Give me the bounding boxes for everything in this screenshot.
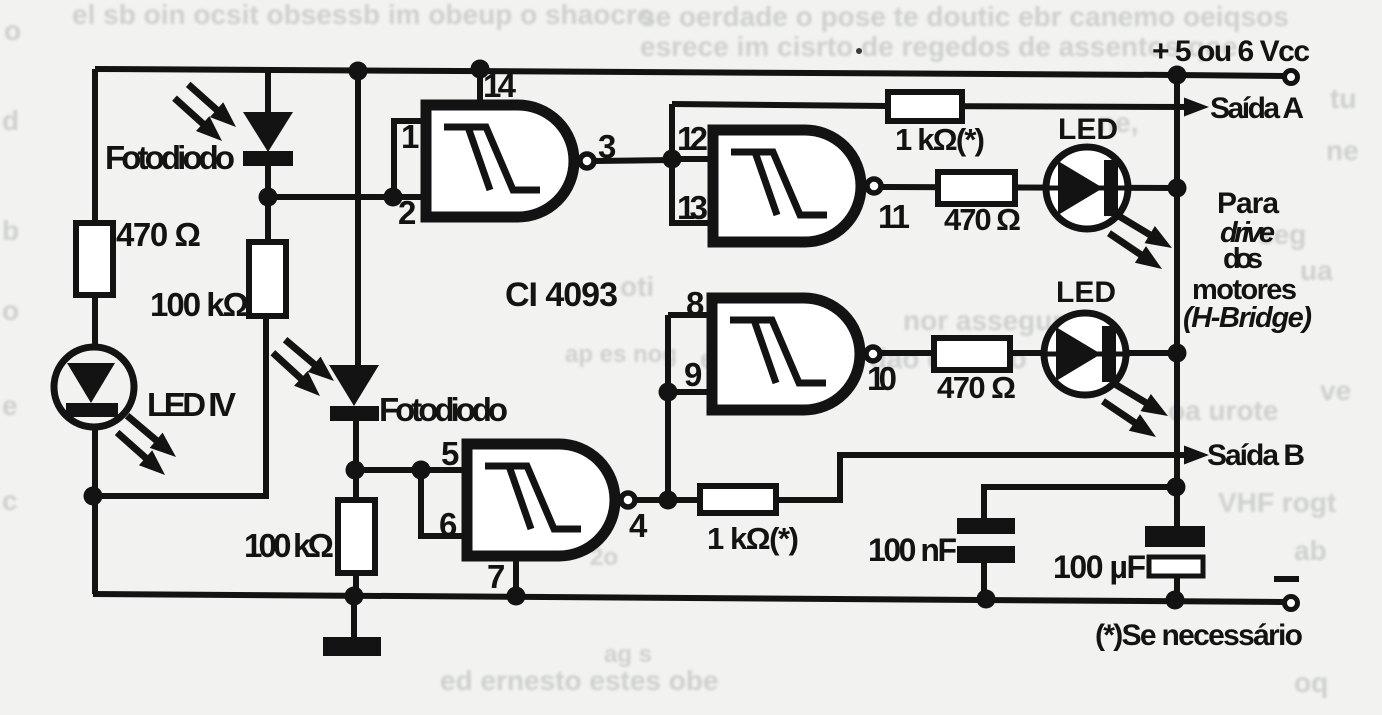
node rail/D2 <box>349 62 368 81</box>
svg-text:c: c <box>2 485 18 516</box>
svg-text:14: 14 <box>483 67 517 104</box>
gate U1d pins 12,13,11 <box>713 130 861 242</box>
svg-text:CI 4093: CI 4093 <box>505 276 618 314</box>
svg-text:Saída B: Saída B <box>1207 439 1305 472</box>
svg-text:ap es nog: ap es nog <box>565 341 677 368</box>
svg-text:Saída A: Saída A <box>1210 92 1304 125</box>
ground symbol <box>323 637 381 656</box>
svg-text:470 Ω: 470 Ω <box>937 370 1016 405</box>
wire pin9 stub and down link <box>665 315 671 500</box>
resistor 1k upper <box>888 92 962 121</box>
ray arrows out of LED1 <box>1112 206 1177 256</box>
wire left vertical branch <box>92 69 98 223</box>
resistor 470R LED1 <box>938 172 1015 204</box>
svg-text:ne: ne <box>1326 135 1359 166</box>
svg-text:4: 4 <box>629 507 648 544</box>
node LED2 bus <box>1168 344 1187 363</box>
resistor 470R left <box>76 223 113 295</box>
node gate4 out <box>659 491 678 510</box>
svg-text:o: o <box>2 295 19 326</box>
wire ground stub <box>351 596 357 641</box>
capacitor 100nF <box>957 518 1015 563</box>
svg-text:LED IV: LED IV <box>147 386 236 423</box>
svg-text:ve: ve <box>1320 375 1351 406</box>
wire Saida A line <box>672 104 1192 107</box>
svg-text:7: 7 <box>487 558 505 595</box>
bubble gate4 <box>621 493 635 507</box>
wire pin7 to ground rail <box>513 561 519 596</box>
svg-text:470 Ω: 470 Ω <box>116 216 201 253</box>
svg-text:Fotodiodo: Fotodiodo <box>105 139 235 176</box>
svg-text:9: 9 <box>684 356 702 393</box>
wire pin9 <box>668 389 714 395</box>
svg-text:1 kΩ(*): 1 kΩ(*) <box>707 521 799 556</box>
node pin2 loop <box>384 188 403 207</box>
svg-text:esrece im cisrto de regedos de: esrece im cisrto de regedos de assentos … <box>640 31 1238 62</box>
wire node pin5 input <box>353 467 470 473</box>
node rail/pin14 <box>471 60 490 79</box>
wire photodiode D2 cathode <box>353 410 359 500</box>
node ground column <box>345 587 364 606</box>
gate U1c pins 8,9,10 <box>712 298 860 410</box>
wire 100nF top link <box>984 487 1176 518</box>
node bus bottom <box>1166 591 1185 610</box>
node pin9 <box>659 383 678 402</box>
svg-text:oa urote: oa urote <box>1168 395 1278 426</box>
wire pin8-pin9 short loop <box>668 312 714 318</box>
wire gate2 output to LED1 <box>882 187 1177 188</box>
svg-text:1: 1 <box>401 118 419 155</box>
resistor 470R LED2 <box>934 338 1010 370</box>
wire gate3 output to LED2 <box>880 350 1177 356</box>
svg-text:ua: ua <box>1300 255 1333 286</box>
wire pin12-pin13 short loop <box>672 104 714 223</box>
wire LED IV to bottom <box>92 427 98 594</box>
svg-text:LED: LED <box>1058 113 1118 146</box>
capacitor 100uF electrolytic <box>1145 526 1205 576</box>
svg-text:1 kΩ(*): 1 kΩ(*) <box>895 122 985 157</box>
svg-text:100 kΩ: 100 kΩ <box>244 527 334 564</box>
wire photodiode D1 cathode to 100k <box>265 166 271 242</box>
svg-text:12: 12 <box>677 120 708 157</box>
wire top supply rail <box>95 69 1285 76</box>
svg-text:e: e <box>2 390 18 421</box>
ray arrows into D2 <box>279 332 341 389</box>
svg-text:oq: oq <box>1294 667 1328 698</box>
svg-text:ed ernesto estes obe: ed ernesto estes obe <box>440 665 719 696</box>
photodiode D2 <box>329 365 379 421</box>
svg-text:ag s: ag s <box>604 641 652 668</box>
wire 470R to LED IV <box>92 295 98 347</box>
wire right bus upper <box>1174 75 1180 526</box>
svg-text:tu: tu <box>1330 83 1356 114</box>
node LED1 bus <box>1168 179 1187 198</box>
LED 2 <box>1044 313 1130 395</box>
LED 1 <box>1046 147 1132 229</box>
svg-text:b: b <box>2 215 19 246</box>
node bus top <box>1168 66 1187 85</box>
wire pin1-pin2 short loop <box>394 121 428 197</box>
node LED IV cathode <box>84 487 103 506</box>
ray arrows out of LED IV <box>121 408 183 465</box>
svg-text:5: 5 <box>441 435 459 472</box>
svg-text:Fotodiodo: Fotodiodo <box>379 391 508 428</box>
svg-text:100 kΩ: 100 kΩ <box>150 286 249 323</box>
svg-text:100 µF: 100 µF <box>1053 549 1146 585</box>
LED IV <box>54 347 134 427</box>
bubble gate2 <box>867 179 881 193</box>
ray arrows out of LED2 <box>1108 374 1173 424</box>
resistor 100k upper <box>249 242 286 316</box>
node gate1 out <box>663 150 682 169</box>
resistor 1k lower <box>700 486 776 513</box>
wire 100nF bottom stub <box>981 562 987 599</box>
node cap link <box>1167 478 1186 497</box>
wire gate4 output / Saida B <box>636 455 1192 500</box>
svg-text:VHF rogt: VHF rogt <box>1218 487 1336 518</box>
wire photodiode D2 anode column <box>355 71 361 365</box>
svg-text:o: o <box>4 15 21 46</box>
wire 100k2 bottom <box>353 573 359 596</box>
wire right bus lower <box>1174 578 1180 600</box>
svg-text:11: 11 <box>878 198 910 235</box>
svg-text:dos: dos <box>1223 243 1263 275</box>
svg-text:10: 10 <box>867 360 897 397</box>
svg-text:(H-Bridge): (H-Bridge) <box>1183 302 1312 334</box>
svg-text:el sb oin ocsit obsessb im obe: el sb oin ocsit obsessb im obeup o shaoc… <box>72 0 654 30</box>
svg-text:2: 2 <box>398 194 416 231</box>
node pin5 loop <box>412 461 431 480</box>
wire bottom return rail <box>93 594 1285 602</box>
arrow Saida A <box>1184 98 1209 117</box>
svg-text:(*)Se necessário: (*)Se necessário <box>1095 619 1303 652</box>
arrow Saida B <box>1184 446 1209 465</box>
svg-text:3: 3 <box>598 128 616 165</box>
wire pin14 supply stub <box>477 69 483 104</box>
wire gate1 output to node <box>595 160 672 161</box>
ray arrows into D1 <box>182 77 243 135</box>
node D1 cathode <box>259 188 278 207</box>
svg-text:6: 6 <box>439 506 457 543</box>
gate U1a pins 1,2,3 <box>426 105 574 217</box>
svg-text:oti: oti <box>620 271 654 302</box>
gate U1b pins 5,6,4 <box>467 444 615 556</box>
wire node pin2 input <box>268 194 421 200</box>
svg-text:d: d <box>2 105 19 136</box>
svg-text:ab: ab <box>1294 535 1327 566</box>
node D2 pin5 <box>346 461 365 480</box>
wire photodiode D1 anode <box>265 70 271 112</box>
svg-text:470 Ω: 470 Ω <box>944 202 1021 237</box>
photodiode D1 <box>243 112 293 166</box>
wire 100k bottom to LED IV node <box>93 316 266 496</box>
svg-text:se oerdade o pose te doutic eb: se oerdade o pose te doutic ebr canemo o… <box>640 1 1289 32</box>
bubble gate3 <box>866 347 880 361</box>
terminal 0V <box>1285 597 1298 610</box>
wire pin5-pin6 short loop <box>421 470 470 536</box>
svg-text:13: 13 <box>677 189 708 226</box>
node 100nF bottom <box>977 590 996 609</box>
node pin7 <box>507 587 526 606</box>
bubble gate1 <box>580 154 594 168</box>
svg-text:LED: LED <box>1056 276 1116 309</box>
minus mark at bottom terminal <box>1274 576 1299 582</box>
svg-text:8: 8 <box>686 285 704 322</box>
wire pin12 stub <box>672 156 714 162</box>
svg-text:100 nF: 100 nF <box>868 532 957 568</box>
svg-text:Para: Para <box>1217 187 1279 220</box>
terminal Vcc <box>1285 71 1298 84</box>
svg-text:+ 5 ou 6 Vcc: + 5 ou 6 Vcc <box>1152 35 1310 68</box>
ink speck <box>856 48 862 54</box>
resistor 100k lower <box>338 500 375 573</box>
